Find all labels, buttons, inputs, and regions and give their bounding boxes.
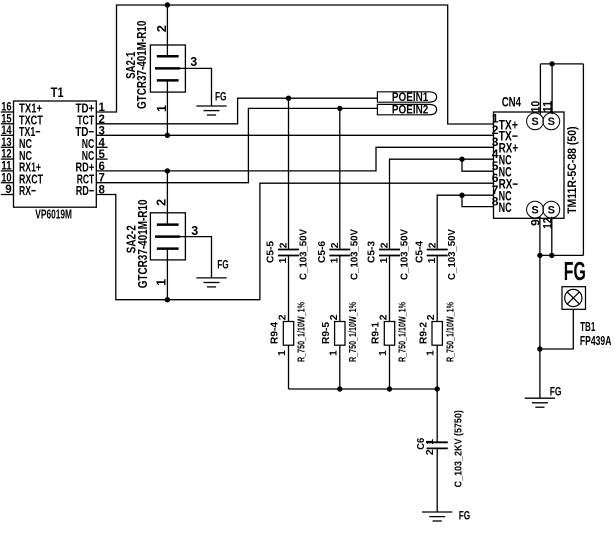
svg-text:R9-4: R9-4 — [269, 322, 281, 344]
svg-text:2: 2 — [378, 314, 390, 320]
svg-text:C_103_50V: C_103_50V — [349, 229, 361, 280]
svg-text:S: S — [548, 116, 555, 128]
wire CN4 pin5 hook — [462, 159, 494, 171]
terminal TB1 circle-X symbol — [565, 289, 582, 306]
T1 pin 13 stub wire — [1, 146, 14, 148]
capacitor C5-3 top plate — [379, 249, 400, 251]
svg-text:1: 1 — [377, 350, 389, 356]
svg-text:2: 2 — [328, 314, 340, 320]
svg-text:R9-1: R9-1 — [370, 322, 382, 344]
svg-text:FG: FG — [550, 385, 562, 399]
wire CN4 pin 9 down — [539, 217, 541, 256]
svg-text:14: 14 — [1, 125, 12, 137]
wire TD+ net: T1 pin1 up over to CN4 pin1 — [96, 5, 493, 124]
transformer T1 box — [14, 101, 97, 207]
svg-text:RD−: RD− — [76, 183, 95, 198]
svg-text:1: 1 — [426, 257, 438, 263]
svg-text:1: 1 — [277, 257, 289, 263]
SA2-2 middle electrode bar — [155, 235, 180, 238]
CN4 shield contact circle bottom-left — [527, 201, 544, 218]
capacitor C6 top plate — [427, 441, 448, 443]
svg-text:C5-3: C5-3 — [366, 241, 378, 263]
svg-text:C_103_2KV (5750): C_103_2KV (5750) — [452, 410, 464, 487]
T1 pin 11 stub wire — [1, 170, 14, 172]
svg-text:RX−: RX− — [19, 183, 36, 198]
svg-text:13: 13 — [1, 137, 11, 149]
junction bus / C5-4 branch / C6 — [435, 386, 440, 391]
svg-text:VP6019M: VP6019M — [35, 206, 72, 221]
junction TCT / C5-5 branch — [286, 96, 291, 101]
capacitor C6 bottom plate — [427, 447, 448, 449]
resistor R9-1 body — [384, 322, 394, 346]
wire CN4 pin 12 down — [551, 217, 553, 256]
svg-text:15: 15 — [1, 113, 12, 125]
junction RD- / SA2-2 pin1 — [165, 297, 170, 302]
wire SA2-1 pin 2 vertical — [166, 5, 168, 56]
svg-text:FG: FG — [564, 256, 586, 286]
T1 pin 5 NC stub — [96, 158, 107, 160]
svg-text:2: 2 — [155, 199, 169, 206]
wire C5-4 to R9-2 — [436, 256, 438, 322]
svg-text:R_750_1/10W_1%: R_750_1/10W_1% — [444, 302, 456, 362]
capacitor C5-6 bottom plate — [329, 255, 350, 257]
svg-text:NC: NC — [499, 200, 512, 215]
net flag POEIN2 — [377, 104, 436, 114]
wire R9-2 to bus — [436, 345, 438, 389]
svg-text:S: S — [531, 205, 538, 217]
T1 pin 14 stub wire — [1, 134, 14, 136]
svg-text:CN4: CN4 — [502, 94, 521, 110]
junction shield bottom / pin 12 — [549, 253, 554, 258]
wire C5-5 to R9-4 — [288, 256, 290, 322]
svg-text:2: 2 — [277, 314, 289, 320]
wire CN4 pin7 net to C5-4 branch — [437, 195, 493, 248]
junction shield bottom / pin 9 / FG stem — [537, 253, 542, 258]
svg-text:2: 2 — [329, 242, 341, 248]
capacitor C5-5 bottom plate — [278, 255, 299, 257]
SA2-2 top electrode bar — [157, 223, 179, 226]
svg-text:2: 2 — [426, 242, 438, 248]
svg-text:FG: FG — [217, 258, 229, 272]
filter SA2-1 box — [150, 45, 185, 92]
svg-text:1: 1 — [327, 350, 339, 356]
capacitor C5-6 top plate — [329, 249, 350, 251]
wire RD+ net: T1 pin6 to CN4 pin3 — [96, 147, 493, 171]
svg-text:3: 3 — [190, 55, 197, 69]
SA2-1 bottom electrode bar — [157, 79, 179, 82]
wire SA2-2 pin 3 to ground — [180, 237, 211, 278]
svg-text:C_103_50V: C_103_50V — [297, 229, 309, 280]
junction on TD+ at SA2-1 pin 2 — [165, 2, 170, 7]
ground FG at SA2-2 — [196, 277, 226, 279]
wire R9-4 to bus — [288, 345, 290, 389]
junction RCT / C5-6 branch — [337, 106, 342, 111]
svg-text:S: S — [531, 116, 538, 128]
svg-text:C_103_50V: C_103_50V — [398, 229, 410, 280]
capacitor C5-4 bottom plate — [427, 255, 448, 257]
wire SA2-1 pin 3 to ground — [180, 68, 211, 106]
resistor R9-4 body — [283, 322, 293, 346]
svg-text:1: 1 — [425, 350, 437, 356]
svg-text:C5-4: C5-4 — [413, 241, 425, 263]
wire R9-1 to bus — [389, 345, 391, 389]
svg-text:GTCR37-401M-R10: GTCR37-401M-R10 — [135, 199, 150, 288]
wire TCT net: T1 pin2 to POEIN1 — [96, 98, 377, 124]
svg-text:2: 2 — [425, 314, 437, 320]
wire TB1 to FG stem — [540, 309, 573, 349]
wire shield right vertical — [582, 64, 584, 256]
junction CN4 pin7/pin8 — [459, 193, 464, 198]
ground FG below CN4 — [525, 397, 555, 399]
T1 pin 12 stub wire — [1, 158, 14, 160]
wire CN4 pin4 net to C5-3 branch — [390, 159, 494, 248]
ground FG at SA2-1 — [196, 105, 226, 107]
svg-text:9: 9 — [5, 184, 11, 196]
svg-text:11: 11 — [1, 161, 12, 173]
svg-text:1: 1 — [424, 439, 436, 445]
svg-text:T1: T1 — [51, 85, 64, 100]
wire SA2-2 pin 1 vertical — [166, 249, 168, 300]
svg-text:2: 2 — [278, 242, 290, 248]
svg-text:FG: FG — [215, 89, 227, 103]
net flag POEIN1 — [377, 92, 436, 102]
svg-text:C_103_50V: C_103_50V — [446, 229, 458, 280]
wire SA2-1 pin 1 vertical to TD- net — [166, 80, 168, 135]
svg-text:1: 1 — [276, 350, 288, 356]
wire shield bottom horizontal — [540, 254, 584, 256]
junction RD+ / SA2-2 pin2 — [165, 168, 170, 173]
junction CN4 pin4/pin5 — [459, 157, 464, 162]
svg-text:2: 2 — [424, 449, 436, 455]
svg-text:R9-5: R9-5 — [320, 322, 332, 344]
T1 pin 15 stub wire — [1, 123, 14, 125]
svg-text:12: 12 — [1, 149, 11, 161]
wire R9-5 to bus — [339, 345, 341, 389]
wire C5-6 branch vertical upper — [339, 108, 341, 248]
wire SA2-2 pin 2 vertical — [166, 171, 168, 225]
junction shield top / pin 11 — [549, 61, 554, 66]
CN4 shield contact circle bottom-right — [543, 201, 560, 218]
resistor R9-2 body — [432, 322, 442, 346]
wire CN4 pin 10 up — [539, 64, 541, 115]
wire RCT net: T1 pin7 to POEIN2 — [96, 108, 377, 182]
svg-text:2: 2 — [379, 242, 391, 248]
wire RD- net: T1 pin8 loop under SA2-2 to CN4 pin6 — [96, 183, 493, 300]
svg-text:C5-5: C5-5 — [265, 241, 277, 263]
wire C5-5 branch vertical upper — [288, 98, 290, 248]
ground FG below C6 — [422, 511, 452, 513]
capacitor C5-4 top plate — [427, 249, 448, 251]
svg-text:1: 1 — [328, 257, 340, 263]
svg-text:R_750_1/10W_1%: R_750_1/10W_1% — [397, 302, 409, 362]
capacitor C5-3 bottom plate — [379, 255, 400, 257]
filter SA2-2 box — [150, 213, 185, 260]
CN4 shield contact circle top-right — [543, 113, 560, 130]
svg-text:3: 3 — [191, 224, 198, 238]
SA2-2 bottom electrode bar — [157, 247, 179, 250]
svg-text:16: 16 — [1, 102, 11, 114]
SA2-1 top electrode bar — [157, 55, 179, 58]
CN4 shield contact circle top-left — [527, 113, 544, 130]
T1 pin 4 NC stub — [96, 146, 107, 148]
svg-text:R9-2: R9-2 — [417, 322, 429, 344]
wire CN4 pin 11 up — [551, 64, 553, 114]
junction SA2-1 pin1 / TD- — [165, 133, 170, 138]
junction bus / C5-3 branch — [387, 386, 392, 391]
wire C5-6 to R9-5 — [339, 256, 341, 322]
wire FG stem down to ground — [539, 255, 541, 398]
svg-text:FP439A: FP439A — [580, 334, 612, 348]
svg-text:POEIN2: POEIN2 — [392, 103, 429, 117]
T1 pin 9 stub wire — [1, 194, 14, 196]
connector CN4 box — [494, 112, 565, 218]
svg-text:FG: FG — [459, 508, 471, 522]
terminal TB1 box — [562, 287, 586, 310]
wire CN4 pin8 hook — [462, 195, 494, 206]
T1 pin 16 stub wire — [1, 111, 14, 113]
resistor R9-5 body — [335, 322, 345, 346]
wire TD- net: T1 pin3 to CN4 pin2 — [96, 134, 493, 136]
wire C6 to ground — [436, 448, 438, 512]
svg-text:S: S — [548, 205, 555, 217]
svg-text:GTCR37-401M-R10: GTCR37-401M-R10 — [134, 21, 149, 109]
wire C5-3 to R9-1 — [389, 256, 391, 322]
SA2-1 middle electrode bar — [155, 67, 180, 70]
svg-text:TM11R-5C-88 (50): TM11R-5C-88 (50) — [567, 126, 579, 214]
capacitor C5-5 top plate — [278, 249, 299, 251]
svg-text:R_750_1/10W_1%: R_750_1/10W_1% — [296, 302, 308, 362]
svg-text:1: 1 — [378, 257, 390, 263]
junction bus / C5-6 branch — [337, 386, 342, 391]
wire bus down to C6 — [436, 389, 438, 442]
svg-text:TB1: TB1 — [580, 320, 595, 334]
svg-text:10: 10 — [1, 172, 11, 184]
junction TB1 / FG stem — [537, 346, 542, 351]
svg-text:R_750_1/10W_1%: R_750_1/10W_1% — [347, 302, 359, 362]
svg-text:1: 1 — [155, 279, 169, 286]
T1 pin 10 stub wire — [1, 182, 14, 184]
svg-text:C5-6: C5-6 — [316, 241, 328, 263]
wire bottom bus — [289, 388, 438, 390]
wire shield top horizontal — [540, 63, 583, 65]
